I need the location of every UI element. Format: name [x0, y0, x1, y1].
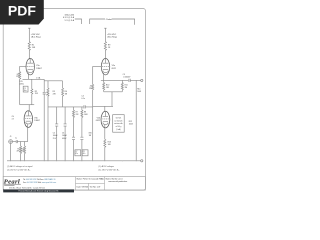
wire rectifier to choke — [90, 19, 105, 24]
terminal output — [141, 79, 143, 81]
note (1) right — [99, 165, 121, 171]
svg-text:0.1u: 0.1u — [81, 98, 85, 100]
svg-text:10u: 10u — [24, 90, 27, 92]
svg-text:1K5: 1K5 — [35, 93, 38, 95]
wire R1 to V1a plate — [28, 51, 31, 59]
svg-text:Choke: Choke — [106, 19, 113, 21]
svg-text:C8: C8 — [83, 151, 85, 153]
page background — [0, 0, 149, 198]
svg-text:100uF: 100uF — [62, 135, 67, 137]
svg-text:(1). All DC voltages: (1). All DC voltages — [99, 165, 114, 168]
svg-text:C5: C5 — [53, 132, 55, 134]
capacitor C5 — [55, 107, 58, 161]
svg-text:R3: R3 — [17, 148, 19, 150]
svg-text:5 V @ 3 A: 5 V @ 3 A — [65, 19, 75, 22]
wire V2a grid riser — [92, 66, 94, 107]
triode V1a — [26, 58, 42, 79]
terminal ground — [141, 160, 143, 162]
node +250 VDC left — [31, 34, 41, 39]
svg-text:(Bus Reg.): (Bus Reg.) — [31, 36, 41, 38]
wire B+ right stage — [104, 28, 106, 42]
svg-text:0.1/400V: 0.1/400V — [123, 76, 131, 78]
svg-text:Ver No: 1.07: Ver No: 1.07 — [90, 185, 101, 188]
svg-text:12AX7: 12AX7 — [34, 119, 40, 122]
transformer secondary labels — [63, 15, 75, 22]
junction dots on bus — [10, 159, 136, 162]
capacitor C4 coupling — [81, 95, 92, 108]
resistor R7 — [73, 107, 75, 137]
wire cathode link — [104, 91, 123, 93]
svg-text:C1: C1 — [24, 88, 26, 90]
note box bias setting — [113, 115, 125, 133]
address bar — [3, 189, 74, 192]
resistor R2 cathode — [31, 79, 33, 104]
svg-text:J1: J1 — [10, 136, 12, 138]
wire B+ left stage — [28, 28, 30, 42]
label rail voltage — [89, 132, 92, 136]
wire V1b cathode to input node — [27, 127, 29, 141]
svg-text:Date: 9/19/06: Date: 9/19/06 — [77, 185, 88, 188]
svg-text:1W: 1W — [89, 88, 92, 90]
triode V2b — [96, 111, 110, 128]
resistor R8 — [81, 107, 83, 137]
resistor R3 — [20, 142, 22, 161]
svg-text:Tel: 604 985 9232 Toll-Free: 8: Tel: 604 985 9232 Toll-Free: 888 PEARL 9… — [23, 178, 56, 181]
schematic sheet border frame — [3, 9, 145, 191]
resistor R6 — [62, 81, 64, 107]
svg-text:R8: R8 — [84, 112, 86, 114]
svg-text:47u: 47u — [75, 153, 78, 155]
contact phone row — [23, 178, 57, 184]
wire V2b cathode — [104, 128, 106, 139]
capacitor C7 — [72, 137, 75, 161]
resistor R5 — [47, 81, 49, 161]
svg-text:(2). 230 V w/ 230 VDC B+.: (2). 230 V w/ 230 VDC B+. — [99, 169, 121, 171]
PDF badge — [0, 0, 44, 25]
triode V1b — [24, 111, 40, 128]
wire to V1b plate — [28, 105, 30, 111]
resistor R15 grid stopper — [19, 72, 21, 105]
wire V1a grid — [20, 66, 26, 71]
svg-text:Fax: 604 985 9238 Web: www.pea: Fax: 604 985 9238 Web: www.pearl-hifi.co… — [23, 181, 57, 184]
svg-text:47u: 47u — [83, 153, 86, 155]
svg-text:C7: C7 — [75, 151, 77, 153]
ground bus — [7, 160, 141, 162]
capacitor C8 — [80, 137, 83, 161]
wire junction node K2 — [93, 105, 113, 107]
svg-text:100uF: 100uF — [53, 135, 58, 137]
label R14 — [137, 89, 142, 93]
input jack J1 — [9, 136, 28, 161]
node +250 VDC right — [107, 34, 117, 39]
wire V2a grid — [93, 65, 102, 67]
svg-text:1K5: 1K5 — [106, 87, 109, 89]
svg-text:(2). 230 V (*) w/ 230 VDC B+.: (2). 230 V (*) w/ 230 VDC B+. — [7, 169, 31, 171]
label node voltage — [12, 116, 15, 120]
wire rail to bus — [92, 107, 94, 161]
resistor R11 load — [121, 80, 123, 92]
wire choke to B+ — [112, 19, 135, 25]
capacitor C9 output — [123, 74, 141, 82]
resistor R12 label — [129, 121, 134, 125]
wire V1 anode output — [44, 80, 62, 82]
svg-text:R4: R4 — [22, 148, 24, 150]
wire junction node K1 — [20, 104, 35, 106]
svg-text:1W: 1W — [89, 135, 92, 137]
svg-text:(2V1): (2V1) — [19, 84, 24, 86]
svg-text:6731 No. 3 Road · Richmond BC: 6731 No. 3 Road · Richmond BC · Canada V… — [9, 187, 45, 189]
svg-text:1W: 1W — [16, 76, 19, 78]
svg-text:6922: 6922 — [96, 120, 100, 122]
wire V2a output node — [101, 79, 128, 81]
svg-text:(1). All DC voltages w/ no sig: (1). All DC voltages w/ no signal — [7, 165, 33, 168]
svg-text:PDF: PDF — [8, 3, 36, 19]
svg-text:12AX7: 12AX7 — [36, 67, 42, 70]
label grid voltage — [19, 81, 24, 85]
resistor R9 — [104, 42, 106, 51]
wire interstage node — [48, 106, 83, 108]
svg-text:(Bus Reg.): (Bus Reg.) — [108, 36, 118, 38]
notes cell — [106, 178, 128, 183]
resistor R1 — [28, 42, 30, 51]
resistor R13 — [104, 139, 106, 161]
triode V2a — [101, 58, 116, 80]
svg-text:commercial production: commercial production — [108, 180, 127, 183]
capacitor C6 — [64, 107, 67, 161]
capacitor C7 boxed label — [75, 150, 81, 156]
svg-text:6.3 V @ 3 A: 6.3 V @ 3 A — [63, 16, 75, 19]
label V2 grid voltage — [89, 85, 92, 89]
wire V1a cathode node — [23, 78, 45, 80]
wire HT secondary to rectifier — [75, 19, 82, 24]
svg-text:1u: 1u — [15, 138, 17, 140]
resistor R4 — [24, 142, 26, 161]
wire R9 to V2a plate — [104, 51, 106, 59]
wire return rail — [135, 80, 137, 161]
svg-text:Name: Fisher 55 Cascode RIAA: Name: Fisher 55 Cascode RIAA — [77, 178, 105, 181]
resistor R10 cathode — [103, 80, 105, 92]
svg-text:C6: C6 — [62, 132, 64, 134]
wire to V2b plate — [104, 106, 106, 111]
capacitor C1 boxed label — [23, 86, 28, 92]
title block — [3, 177, 145, 193]
svg-text:6922: 6922 — [112, 68, 116, 70]
note (1) left — [7, 165, 33, 171]
capacitor C8 boxed label — [82, 150, 88, 156]
wire drop to K2 — [111, 92, 113, 107]
svg-text:R7: R7 — [76, 112, 78, 114]
capacitor C2 bypass rail — [43, 79, 49, 161]
